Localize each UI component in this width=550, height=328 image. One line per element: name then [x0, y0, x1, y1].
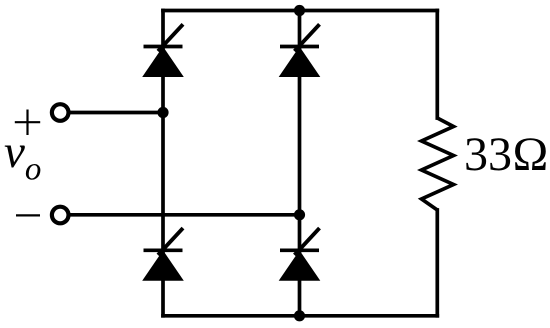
- label: plus sign: [15, 110, 40, 136]
- terminal: minus open circle: [52, 207, 69, 224]
- wire: minus terminal lead: [69, 213, 300, 217]
- label: minus sign: [16, 214, 40, 216]
- thyristor bottom-right: [279, 228, 321, 281]
- thyristor top-right: [279, 24, 321, 77]
- wire: plus terminal lead: [69, 111, 163, 115]
- thyristor top-left: [142, 24, 184, 77]
- wire: right vertical lower segment: [435, 210, 439, 316]
- wire: right vertical upper segment: [435, 11, 439, 119]
- wire: middle vertical branch: [298, 11, 302, 316]
- junction: bottom node: [294, 310, 305, 321]
- wire: top horizontal rail: [163, 9, 437, 13]
- wire: bottom horizontal rail: [163, 314, 437, 318]
- wire: left vertical branch: [161, 11, 165, 316]
- junction: plus node: [157, 107, 168, 118]
- thyristor bottom-left: [142, 228, 184, 281]
- junction: minus node: [294, 209, 305, 220]
- node label: v_o: [4, 125, 41, 189]
- junction: top node: [294, 5, 305, 16]
- resistor 33 ohm zigzag: [422, 118, 454, 210]
- value label: 33 ohm: [464, 127, 549, 182]
- terminal: plus open circle: [52, 104, 69, 121]
